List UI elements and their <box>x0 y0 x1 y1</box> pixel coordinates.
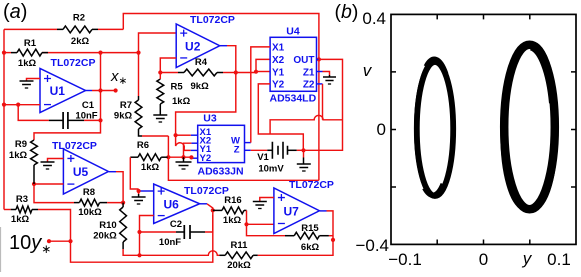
ground U3 inputs <box>176 161 192 163</box>
wire U4 Y1 to U2 output node <box>236 72 256 74</box>
wire U1 plus input to ground <box>27 79 41 82</box>
wire U3 Y2 to ground <box>191 157 197 159</box>
svg-text:U3: U3 <box>203 113 217 125</box>
svg-text:V1: V1 <box>257 152 269 163</box>
wire C1 left branch <box>18 105 49 121</box>
multiplier U4 AD534LD <box>270 37 316 91</box>
node 10y* terminal <box>47 239 51 243</box>
plot frame <box>391 14 576 244</box>
svg-text:10y∗: 10y∗ <box>9 232 51 256</box>
svg-text:2kΩ: 2kΩ <box>71 36 90 47</box>
wire R8 left <box>34 184 74 203</box>
resistor R6 <box>161 156 168 158</box>
wire U2 minus input <box>160 58 176 68</box>
svg-text:(a): (a) <box>3 1 27 23</box>
plot ticks <box>391 14 576 244</box>
wire U3 X1 input <box>191 134 198 136</box>
svg-text:OUT: OUT <box>293 55 314 66</box>
wire U2 plus input branch <box>139 33 177 53</box>
wire U5 plus to ground <box>48 159 64 162</box>
wire U7 output <box>320 210 327 212</box>
svg-text:6kΩ: 6kΩ <box>301 242 320 253</box>
resistor R1 <box>17 49 42 56</box>
battery V1 <box>272 142 283 159</box>
svg-text:−0.1: −0.1 <box>388 250 422 269</box>
op-amp U6 <box>154 184 200 224</box>
wire U1 output to R1 row <box>100 53 102 121</box>
svg-text:9kΩ: 9kΩ <box>191 81 210 92</box>
wire R10 bottom <box>123 249 139 255</box>
wire U7 plus to ground <box>260 198 274 202</box>
op-amp U2 <box>176 24 220 68</box>
svg-text:Y2: Y2 <box>200 153 212 164</box>
svg-text:R1: R1 <box>24 38 37 49</box>
svg-text:Z: Z <box>234 145 240 156</box>
node R1/left rail <box>2 51 6 55</box>
svg-text:0.4: 0.4 <box>362 9 386 28</box>
resistor R10 <box>122 203 124 207</box>
resistor R8 <box>79 199 99 206</box>
svg-text:R11: R11 <box>231 240 249 251</box>
wire U6 minus <box>140 216 154 233</box>
svg-text:C2: C2 <box>170 219 182 230</box>
ground battery <box>297 163 311 165</box>
svg-text:0: 0 <box>377 120 386 139</box>
limit cycle left <box>417 62 453 196</box>
node x* terminal <box>114 88 118 92</box>
resistor R4 <box>184 69 217 76</box>
wire R11 row with hop <box>140 251 220 256</box>
svg-text:TL072CP: TL072CP <box>190 14 235 26</box>
multiplier U3 AD633JN <box>198 125 245 162</box>
resistor R11 <box>225 252 253 259</box>
wire R9 top from C1 node <box>34 120 101 140</box>
wire U6 plus to ground <box>139 190 154 192</box>
svg-text:AD534LD: AD534LD <box>270 93 317 105</box>
svg-text:1kΩ: 1kΩ <box>172 96 191 107</box>
wire U1 minus input <box>4 104 40 106</box>
wire U3 W to U4 X1 <box>245 142 251 144</box>
svg-text:AD633JN: AD633JN <box>198 166 244 178</box>
ground U7 <box>253 201 267 203</box>
svg-text:TL072CP: TL072CP <box>289 179 334 191</box>
wire R2 row <box>4 28 57 30</box>
svg-text:1kΩ: 1kΩ <box>9 150 28 161</box>
svg-text:R2: R2 <box>73 13 85 24</box>
svg-text:R6: R6 <box>137 140 149 151</box>
wire U4 X2 branch <box>256 59 270 71</box>
wire 10y* to U6 output net <box>49 240 71 242</box>
wire X1-Y1 tie with hop <box>176 135 191 150</box>
resistor R15 <box>294 232 319 239</box>
svg-text:Z2: Z2 <box>303 80 315 91</box>
resistor R2 <box>63 26 92 33</box>
svg-text:x∗: x∗ <box>110 68 127 87</box>
wire U6 output <box>200 203 207 205</box>
svg-text:R10: R10 <box>99 220 116 231</box>
wire top (R2 to U4 OUT) <box>123 14 319 58</box>
svg-text:1kΩ: 1kΩ <box>11 214 30 225</box>
svg-text:R5: R5 <box>171 82 184 93</box>
svg-text:U6: U6 <box>164 197 180 211</box>
wire U2 output <box>220 45 227 47</box>
wire U4 OUT pin <box>317 58 319 60</box>
svg-text:R8: R8 <box>83 187 95 198</box>
wire R1 row <box>4 52 11 54</box>
svg-text:y: y <box>522 249 533 268</box>
svg-text:1kΩ: 1kΩ <box>141 162 160 173</box>
svg-text:1kΩ: 1kΩ <box>223 215 242 226</box>
svg-text:X1: X1 <box>272 42 285 53</box>
resistor R7 <box>138 96 140 100</box>
capacitor C2 <box>140 231 177 233</box>
wire U6 minus down <box>139 232 141 255</box>
svg-text:1kΩ: 1kΩ <box>18 58 37 69</box>
ground U4 Z1 <box>323 76 336 78</box>
op-amp U1 <box>40 69 86 113</box>
node R4/R5 <box>158 70 162 74</box>
svg-text:R9: R9 <box>15 139 27 150</box>
svg-text:20kΩ: 20kΩ <box>227 260 251 271</box>
svg-text:10nF: 10nF <box>159 237 181 248</box>
svg-text:U4: U4 <box>286 26 300 38</box>
svg-text:10kΩ: 10kΩ <box>78 207 102 218</box>
wire U4 Z1 to ground <box>317 71 323 73</box>
wire U3 Z to battery <box>245 149 251 151</box>
stray grey edge line <box>0 227 2 272</box>
svg-text:TL072CP: TL072CP <box>51 57 96 69</box>
op-amp U5 <box>63 149 108 194</box>
svg-text:Y1: Y1 <box>272 67 285 78</box>
svg-text:TL072CP: TL072CP <box>184 185 229 197</box>
op-amp U7 <box>274 188 320 234</box>
svg-text:R4: R4 <box>195 57 208 68</box>
wire U4 OUT long drop <box>318 59 320 180</box>
wire R4 left <box>160 68 178 73</box>
svg-text:v: v <box>363 61 373 80</box>
svg-text:TL072CP: TL072CP <box>52 140 97 152</box>
ground R5 <box>153 114 167 116</box>
wire R6 left to U6 plus <box>130 157 138 189</box>
resistor R9 <box>31 140 38 165</box>
wire U5 output down <box>109 171 116 173</box>
svg-text:0.1: 0.1 <box>547 250 571 269</box>
wire ground bus at U3 <box>168 156 191 158</box>
ground U6 <box>132 196 146 198</box>
svg-text:0: 0 <box>479 250 488 269</box>
svg-text:20kΩ: 20kΩ <box>93 231 117 242</box>
wire R1 row to R7 <box>138 53 140 96</box>
resistor R5 <box>157 79 164 104</box>
resistor R16 <box>213 209 222 211</box>
svg-text:Z1: Z1 <box>303 67 315 78</box>
resistor R3 <box>16 206 32 213</box>
svg-text:U1: U1 <box>50 84 66 98</box>
svg-text:R7: R7 <box>120 100 132 111</box>
wire U4 OUT to battery node <box>304 59 343 150</box>
limit cycle right <box>504 45 555 210</box>
ground U1 <box>20 80 34 82</box>
wire R3 row <box>4 209 11 211</box>
wire left rail <box>3 29 5 209</box>
svg-text:R16: R16 <box>224 195 241 206</box>
wire R6 node down and right to U4 OUT <box>168 136 319 180</box>
svg-text:X2: X2 <box>272 55 285 66</box>
ground U5 <box>41 161 55 163</box>
wire U5 minus <box>34 183 63 185</box>
svg-text:R3: R3 <box>16 194 28 205</box>
svg-text:U5: U5 <box>73 165 89 179</box>
wire battery node to ground <box>303 150 305 157</box>
svg-text:(b): (b) <box>335 1 359 23</box>
svg-text:C1: C1 <box>82 100 95 111</box>
wire U2 out down to U3 X1 <box>176 73 236 136</box>
wire R15 left <box>247 224 286 235</box>
node U4 OUT <box>317 57 321 61</box>
wire Z2/OUT wrap with hop <box>270 115 342 134</box>
wire U4 Y2 to battery node <box>258 84 303 150</box>
wire R7 bottom <box>139 129 143 136</box>
wire R16 to U7 minus <box>246 210 248 224</box>
svg-text:U2: U2 <box>185 39 201 53</box>
wire U3 X2 to ground <box>191 142 197 144</box>
svg-text:U7: U7 <box>284 204 300 218</box>
capacitor C1 <box>63 112 68 129</box>
svg-text:−0.4: −0.4 <box>355 236 389 255</box>
svg-text:10nF: 10nF <box>75 111 97 122</box>
wire U1 output / x* node <box>86 90 93 92</box>
svg-text:10mV: 10mV <box>258 164 284 175</box>
svg-text:Y2: Y2 <box>272 80 285 91</box>
svg-text:R15: R15 <box>301 223 319 234</box>
wire U4 Z2 wrap with hop <box>317 83 323 85</box>
battery node dot <box>301 148 305 152</box>
svg-text:9kΩ: 9kΩ <box>114 111 133 122</box>
